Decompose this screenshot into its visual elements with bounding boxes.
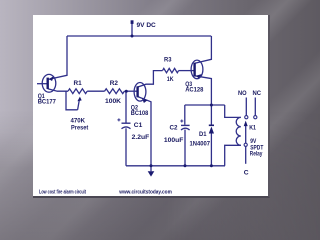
wire R2 to Q2 base xyxy=(124,90,136,92)
wire Q3 collector up to rail xyxy=(195,36,212,63)
svg-text:NC: NC xyxy=(253,90,262,97)
transistor Q2 base bar xyxy=(136,86,138,97)
ground stub xyxy=(150,166,152,172)
wire Q1 collector to R1 xyxy=(48,89,68,91)
capacitor C1 plates xyxy=(122,122,131,124)
svg-text:R3: R3 xyxy=(164,57,172,64)
node dot Q2 emitter on ground rail xyxy=(150,164,153,167)
transistor Q1 body xyxy=(42,74,56,92)
transistor Q2 body xyxy=(134,83,146,102)
preset arrow head xyxy=(77,97,81,102)
transistor Q3 base bar xyxy=(193,63,195,77)
capacitor C1 bottom lead xyxy=(125,128,127,166)
capacitor C2 plates xyxy=(181,124,190,126)
wire NC contact stub xyxy=(254,98,256,116)
capacitor C2 top lead xyxy=(184,105,186,125)
wire left drop to Q1 emitter xyxy=(48,36,67,79)
wire Q3 emitter down xyxy=(195,76,212,105)
wire node row C2/D1/relay xyxy=(185,104,225,106)
node 9V terminal square xyxy=(131,20,134,24)
diode D1 bottom lead xyxy=(210,133,212,165)
transistor Q3 arrow (emitter, into bar) xyxy=(196,74,202,79)
svg-text:AC128: AC128 xyxy=(185,86,203,93)
wire relay armature xyxy=(245,126,247,144)
wire relay common to C xyxy=(245,146,247,163)
node dot D1 on ground rail xyxy=(210,164,213,167)
node dot 9V on rail xyxy=(131,35,134,38)
svg-text:C: C xyxy=(244,170,249,177)
ground symbol xyxy=(148,171,155,176)
inductor K1 coil xyxy=(236,117,241,145)
capacitor C1 plus sign xyxy=(117,118,120,121)
capacitor C1 top lead xyxy=(125,91,127,122)
wire R1 to R2 xyxy=(87,90,104,92)
resistor R3 xyxy=(163,68,179,72)
svg-text:100K: 100K xyxy=(105,98,121,105)
wire NO contact stub xyxy=(245,98,247,116)
wire Q2 emitter drop xyxy=(138,97,151,166)
wire Q2 collector up to R3 xyxy=(138,71,163,87)
transistor Q3 body xyxy=(191,60,203,79)
contact circle NC xyxy=(254,116,257,119)
wire Q1 base stub xyxy=(37,83,47,85)
relay armature arrow head xyxy=(244,121,248,127)
svg-text:100uF: 100uF xyxy=(164,137,184,144)
svg-text:www.circuitstoday.com: www.circuitstoday.com xyxy=(118,190,172,196)
node dot C2 on ground rail xyxy=(184,164,187,167)
svg-text:R1: R1 xyxy=(74,80,82,87)
node dot D1 top junction xyxy=(210,104,213,107)
wire relay coil return xyxy=(225,145,241,166)
node 9V terminal stub xyxy=(131,24,133,37)
svg-text:1N4007: 1N4007 xyxy=(190,140,211,147)
transistor Q1 base bar xyxy=(47,78,49,89)
wire R3 to Q3 base xyxy=(179,70,194,72)
svg-text:1K: 1K xyxy=(167,76,174,83)
wire ground rail xyxy=(126,165,225,167)
capacitor C2 plus sign xyxy=(180,120,183,123)
transistor Q2 arrow (emitter, outward) xyxy=(142,98,148,103)
node dot R2/Q2 base junction xyxy=(125,90,128,93)
contact circle NO xyxy=(245,116,248,119)
svg-text:R2: R2 xyxy=(110,80,118,87)
resistor R2 xyxy=(105,89,125,94)
svg-text:Relay: Relay xyxy=(250,150,263,157)
svg-text:D1: D1 xyxy=(199,131,207,138)
svg-text:Low cost fire alarm circuit: Low cost fire alarm circuit xyxy=(39,190,86,196)
svg-text:K1: K1 xyxy=(249,125,256,132)
svg-text:C1: C1 xyxy=(134,122,143,129)
transistor Q1 arrow (emitter, into bar) xyxy=(49,76,54,81)
svg-text:2.2uF: 2.2uF xyxy=(132,134,150,141)
contact circle common xyxy=(244,143,247,146)
diode D1 xyxy=(209,127,214,134)
resistor R1 xyxy=(68,89,87,94)
svg-text:NO: NO xyxy=(238,90,247,97)
diode D1 top lead xyxy=(210,105,212,125)
svg-text:Preset: Preset xyxy=(71,124,89,131)
wire relay feed xyxy=(225,105,241,117)
svg-text:9V DC: 9V DC xyxy=(137,22,156,29)
svg-text:BC108: BC108 xyxy=(131,110,149,117)
svg-text:BC177: BC177 xyxy=(38,98,56,105)
capacitor C2 bottom lead xyxy=(184,130,186,166)
svg-text:C2: C2 xyxy=(170,125,178,132)
wire preset wiper xyxy=(66,91,79,110)
wire top rail xyxy=(67,35,211,37)
